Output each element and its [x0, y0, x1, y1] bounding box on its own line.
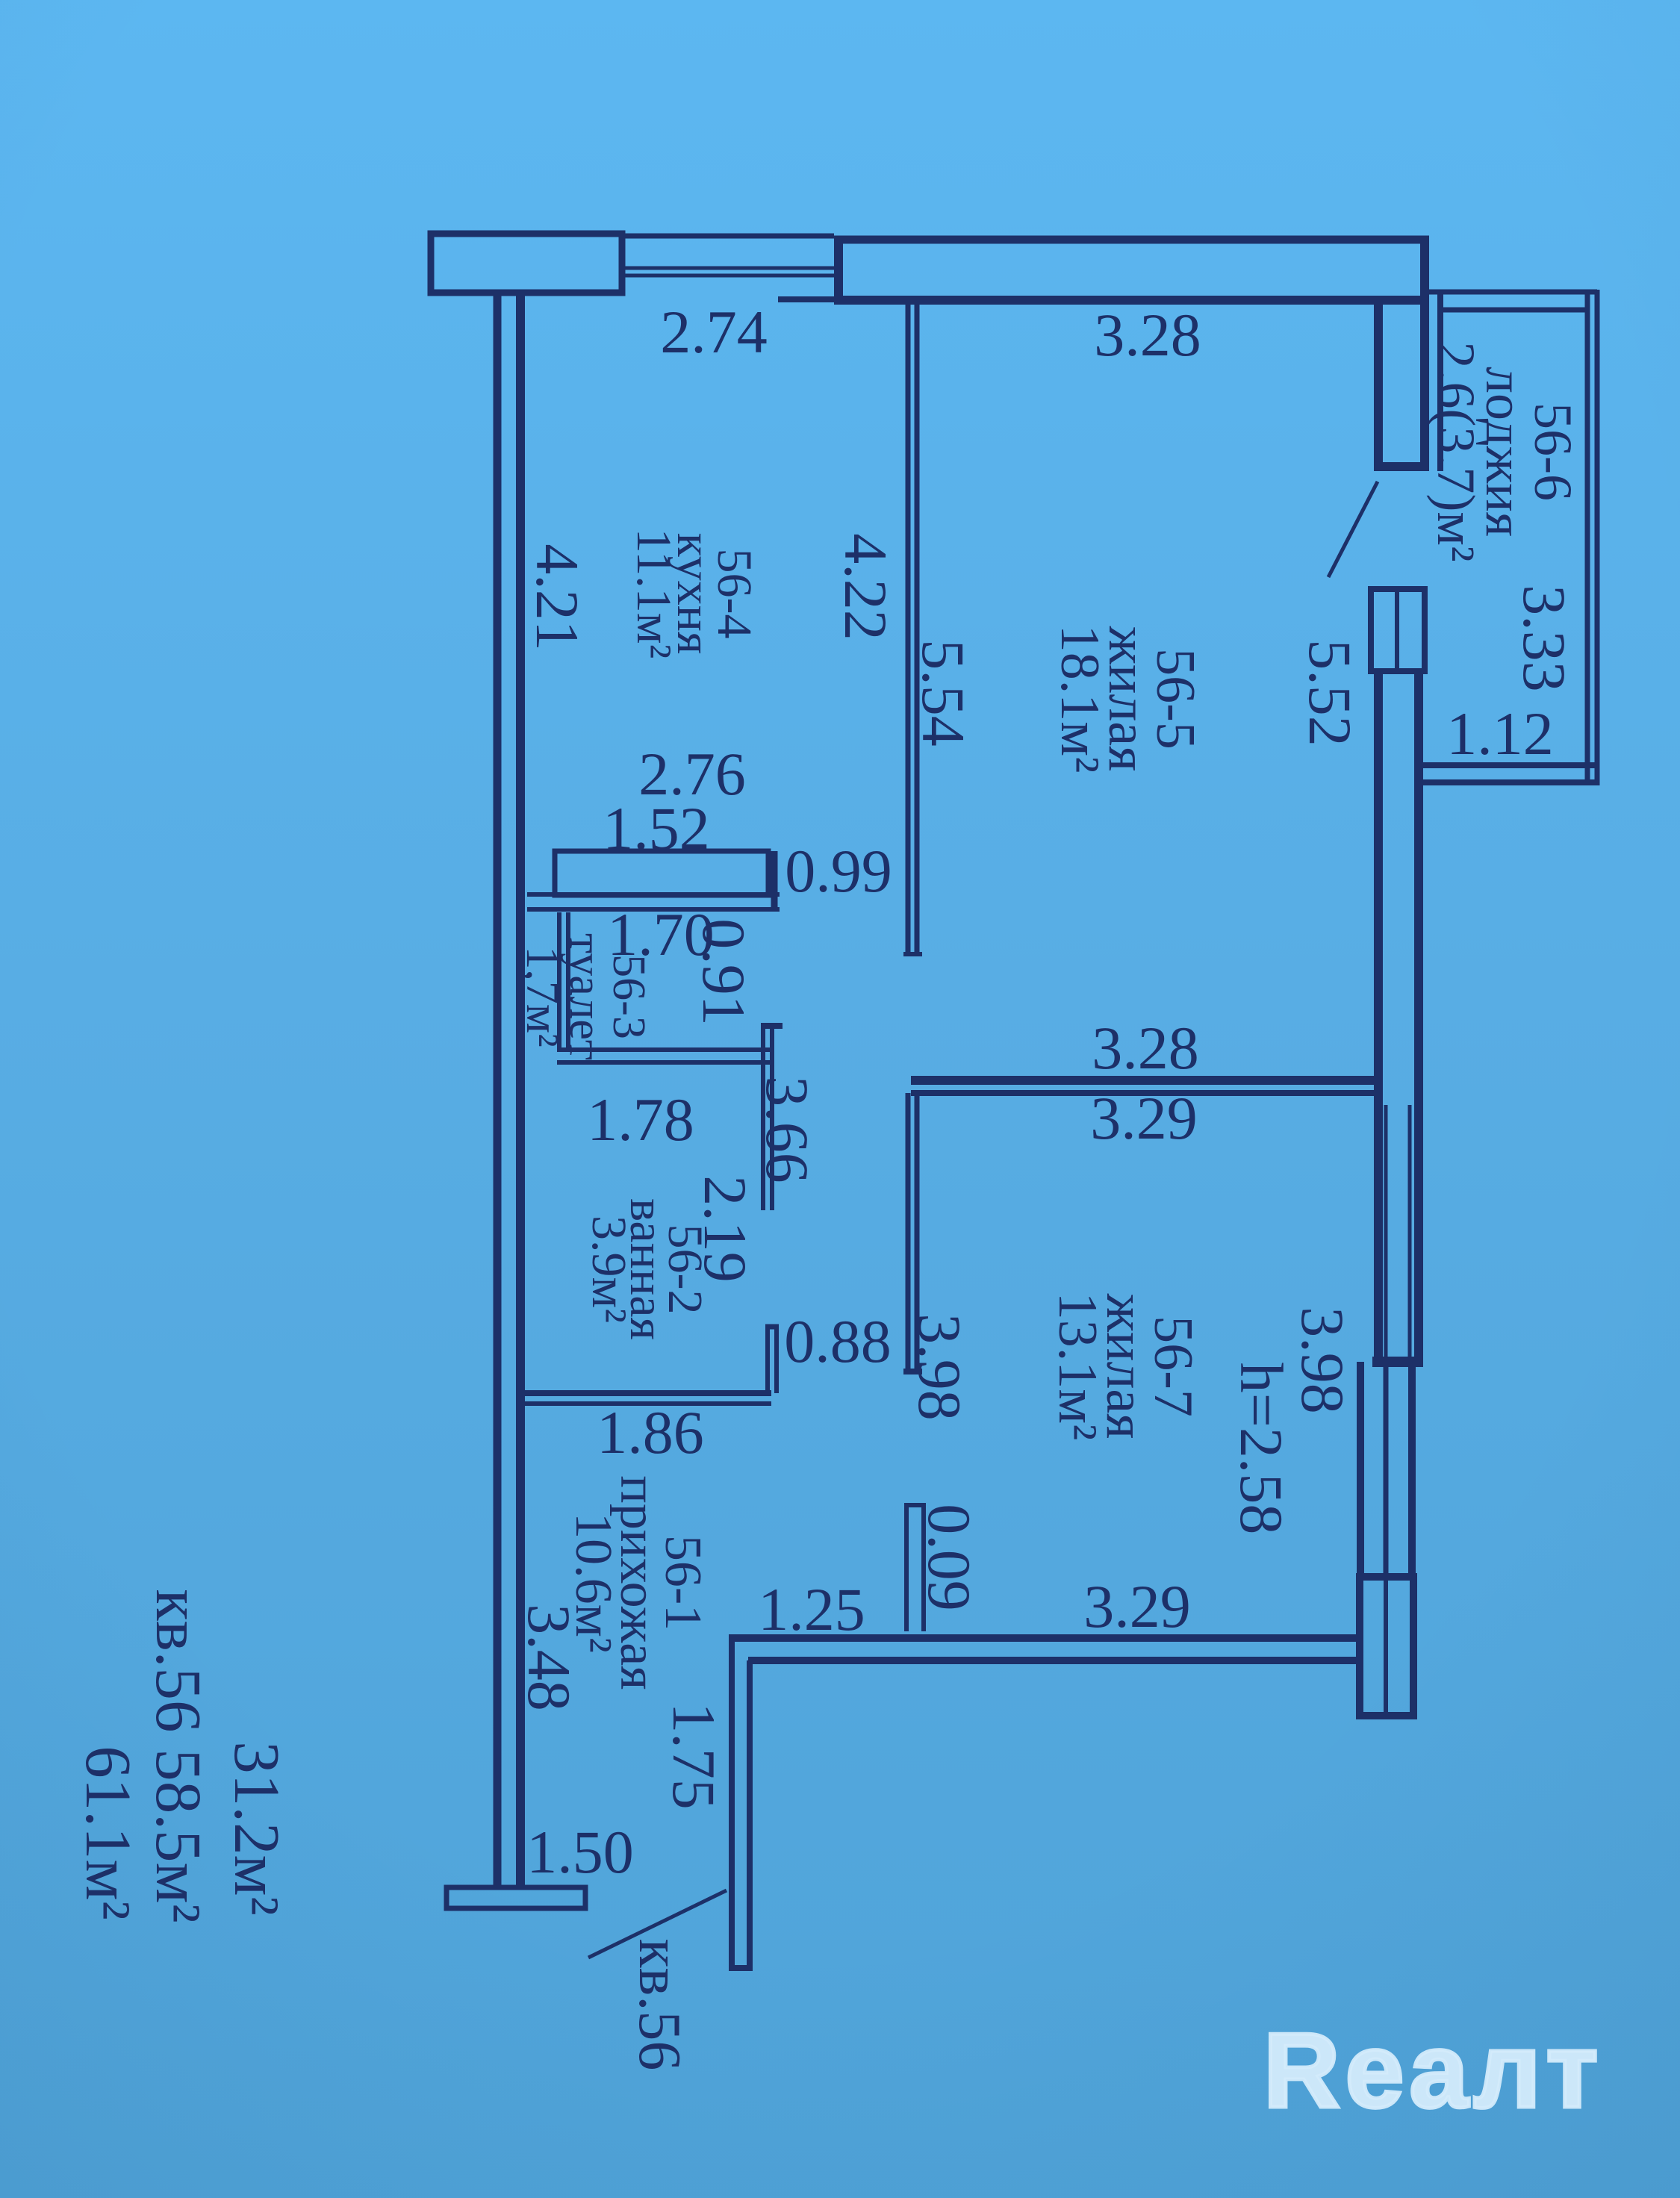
svg-text:61.1м²: 61.1м² — [72, 1746, 145, 1920]
svg-text:1.75: 1.75 — [660, 1702, 728, 1810]
0.09 stub top cap — [904, 1503, 926, 1507]
svg-text:Reaлт: Reaлт — [1263, 2011, 1603, 2130]
entrance door leaf diagonal — [588, 1890, 727, 1958]
bathroom bottom wall line a — [523, 1390, 771, 1396]
bathroom door jamb line b — [774, 1327, 779, 1393]
right wall divider — [1372, 1357, 1423, 1367]
room 56-7 living label — [1047, 1292, 1204, 1441]
kitchen sill rectangle — [555, 851, 768, 895]
svg-text:0.99: 0.99 — [785, 837, 892, 905]
room 56-3 toilet label — [517, 933, 654, 1060]
svg-text:3.29: 3.29 — [1083, 1572, 1191, 1640]
svg-text:3.98: 3.98 — [906, 1313, 974, 1421]
svg-text:5.54: 5.54 — [909, 639, 977, 747]
entrance right wall line b — [747, 1660, 753, 1968]
svg-text:31.2м²: 31.2м² — [221, 1741, 293, 1915]
hall/56-7 bottom wall line a — [729, 1634, 1363, 1642]
svg-text:3.66: 3.66 — [753, 1076, 821, 1183]
top-left wall pier — [431, 234, 622, 293]
kitchen/living wall line a — [906, 305, 911, 954]
svg-text:1.86: 1.86 — [597, 1398, 704, 1466]
right wall left edge below window — [1374, 670, 1383, 1362]
bathroom door jamb cap — [765, 1324, 779, 1330]
toilet right wall line a — [557, 912, 561, 1049]
bathroom top wall line b — [557, 1060, 774, 1065]
loggia left wall line — [1437, 292, 1443, 471]
room 56-1 hall label — [564, 1475, 712, 1690]
loggia bottom line b — [1423, 779, 1599, 785]
svg-text:11.1м²: 11.1м² — [626, 529, 681, 659]
svg-text:10.6м²: 10.6м² — [564, 1513, 622, 1653]
svg-text:кв.56 58.5м²: кв.56 58.5м² — [143, 1589, 215, 1923]
top wall band: left edge — [834, 236, 843, 305]
bathroom top wall line a — [557, 1047, 774, 1052]
svg-text:18.1м²: 18.1м² — [1049, 625, 1110, 773]
right wall shaft mid — [1384, 1366, 1389, 1575]
0.09 stub wall line b — [921, 1505, 926, 1631]
bath/hall T wall line b — [770, 1026, 774, 1210]
room 56-6 loggia label — [1426, 341, 1583, 561]
svg-text:4.21: 4.21 — [523, 544, 591, 651]
right wall shaft right — [1408, 1362, 1416, 1575]
bath/hall T wall top cap — [761, 1023, 783, 1029]
bathroom bottom wall line b — [523, 1401, 771, 1406]
svg-text:1.52: 1.52 — [603, 794, 710, 862]
svg-text:4.22: 4.22 — [832, 533, 900, 641]
top wall band: top edge — [834, 236, 1429, 244]
room 56-2 bathroom label — [582, 1198, 712, 1340]
svg-text:1.78: 1.78 — [587, 1086, 694, 1154]
svg-text:1.12: 1.12 — [1446, 700, 1554, 768]
0.09 stub wall line a — [904, 1505, 909, 1631]
svg-text:3.28: 3.28 — [1092, 1014, 1199, 1082]
right wall shaft section left — [1357, 1362, 1364, 1575]
right wall stub left edge — [1374, 305, 1383, 471]
room 56-5 living label — [1049, 625, 1206, 773]
svg-text:3.33: 3.33 — [1511, 585, 1578, 692]
svg-text:кв.56: кв.56 — [626, 1939, 692, 2071]
svg-text:1,7м²: 1,7м² — [517, 946, 567, 1047]
kitchen window pane line a — [622, 267, 834, 270]
right wall bottom box — [1360, 1577, 1413, 1716]
kitchen bottom wall line b — [527, 907, 780, 912]
right wall bottom box divider — [1384, 1580, 1388, 1713]
kitchen/living wall end cap — [903, 952, 922, 956]
hall/56-7 bottom wall line b — [748, 1657, 1363, 1664]
entrance right wall line a — [729, 1642, 735, 1968]
kitchen window bottom edge piece — [778, 296, 834, 302]
room 56-7 left wall line b — [915, 1093, 920, 1372]
top wall band: right edge down to loggia door — [1420, 236, 1429, 471]
entrance right wall bottom cap — [729, 1965, 753, 1971]
svg-text:3.28: 3.28 — [1094, 301, 1201, 369]
loggia door leaf diagonal — [1328, 482, 1378, 577]
svg-text:2.6(3.7)м²: 2.6(3.7)м² — [1426, 341, 1486, 561]
svg-text:0.09: 0.09 — [915, 1504, 983, 1611]
left outer wall line 1 — [494, 291, 502, 1887]
room 56-7 left wall cap — [903, 1369, 922, 1374]
left outer wall line 2 — [516, 291, 525, 1885]
svg-text:13.1м²: 13.1м² — [1047, 1292, 1108, 1441]
kitchen bottom wall line a — [527, 892, 780, 897]
middle wall 56-5/56-7 line b — [911, 1090, 1378, 1096]
kitchen sill right edge — [771, 851, 778, 909]
kitchen window pane line b — [622, 274, 834, 278]
svg-text:2.74: 2.74 — [660, 298, 768, 366]
loggia right outer line — [1595, 290, 1600, 785]
room 56-7 left wall line a — [906, 1093, 911, 1372]
right wall stub bottom cap — [1374, 462, 1429, 471]
kitchen window top line — [622, 234, 834, 239]
entrance left wall cap — [447, 1887, 585, 1908]
svg-text:1.25: 1.25 — [758, 1575, 865, 1643]
loggia bottom line a — [1423, 762, 1599, 768]
kitchen/living wall line b — [915, 305, 920, 954]
svg-text:0.88: 0.88 — [784, 1307, 892, 1375]
toilet right wall line b — [566, 912, 570, 1049]
loggia top outer line — [1429, 290, 1597, 295]
svg-text:5.52: 5.52 — [1296, 639, 1364, 747]
loggia window divider — [1395, 591, 1399, 670]
svg-text:0.91: 0.91 — [690, 918, 758, 1026]
radiator niche inner lines — [1384, 1105, 1388, 1357]
loggia top inner line — [1437, 308, 1590, 313]
svg-text:3.29: 3.29 — [1090, 1084, 1198, 1152]
bathroom door jamb line a — [765, 1327, 770, 1393]
middle wall 56-5/56-7 line a — [911, 1076, 1378, 1085]
top wall band: bottom edge — [834, 296, 1429, 305]
right wall right edge below window — [1414, 670, 1423, 1362]
svg-text:3.98: 3.98 — [1289, 1307, 1357, 1414]
loggia right inner line — [1585, 292, 1590, 782]
loggia window frame — [1371, 589, 1425, 671]
bath/hall T wall line a — [761, 1026, 765, 1210]
room 56-4 kitchen label — [626, 529, 762, 659]
svg-text:1.50: 1.50 — [526, 1818, 634, 1886]
svg-text:h=2.58: h=2.58 — [1228, 1363, 1295, 1535]
svg-text:3.9м²: 3.9м² — [582, 1215, 636, 1323]
